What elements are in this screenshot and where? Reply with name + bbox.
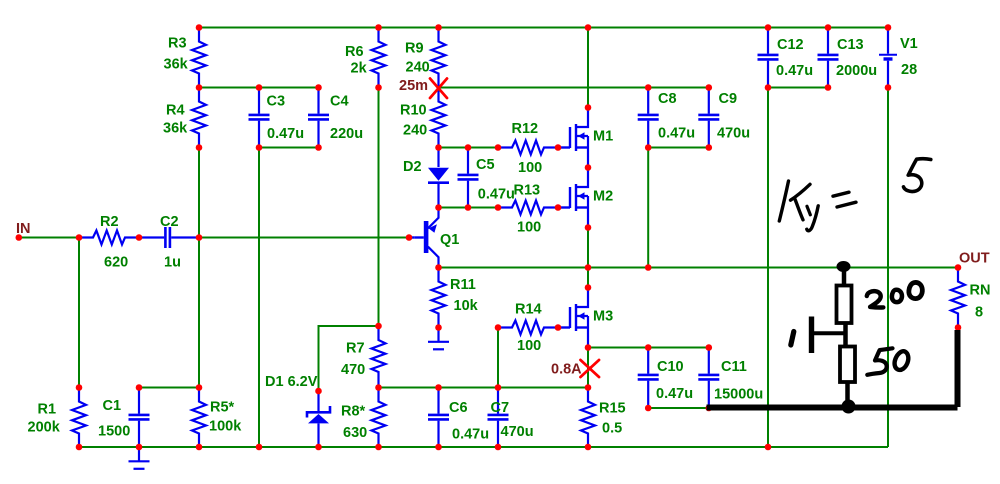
junction M2 source xyxy=(585,224,592,231)
svg-text:470u: 470u xyxy=(501,424,534,440)
svg-text:200k: 200k xyxy=(28,420,61,436)
resistor R1 200k xyxy=(72,388,86,448)
svg-text:C3: C3 xyxy=(267,94,286,110)
junction C3 bottom xyxy=(256,144,263,151)
hand-drawn wire stub to resistor 200 xyxy=(842,269,847,284)
junction R1 top xyxy=(76,384,83,391)
wire R6 bottom down to R7 top xyxy=(378,88,380,327)
wire M3 source rail to C10/C11 tops xyxy=(588,347,709,349)
svg-text:630: 630 xyxy=(343,425,367,441)
wire rail y=387.5 R7/R8 node to R15 top xyxy=(379,387,589,389)
junction M2 source at rail xyxy=(585,264,592,271)
junction C4 top xyxy=(315,84,322,91)
junction R7 top xyxy=(375,323,382,330)
svg-text:36k: 36k xyxy=(164,57,189,73)
svg-text:C10: C10 xyxy=(657,359,684,375)
junction R2 right xyxy=(136,234,143,241)
hand-drawn ground branch wire xyxy=(813,331,845,335)
svg-text:OUT: OUT xyxy=(959,251,990,267)
capacitor C9 470u xyxy=(698,88,719,148)
hand-drawn resistor 50 body xyxy=(840,347,855,383)
junction C11 top xyxy=(706,344,713,351)
junction C13 bottom xyxy=(825,84,832,91)
svg-text:R10: R10 xyxy=(400,103,427,119)
resistor R10 240 xyxy=(432,88,446,148)
wire output rail to M3 drain xyxy=(587,268,589,288)
capacitor C12 0.47u xyxy=(758,28,779,88)
svg-text:100k: 100k xyxy=(209,419,242,435)
junction R13 right M2 gate xyxy=(555,204,562,211)
svg-text:C11: C11 xyxy=(721,359,747,375)
resistor R14 100 xyxy=(498,321,558,335)
resistor R6 2k xyxy=(372,28,386,88)
svg-text:C6: C6 xyxy=(449,400,468,416)
junction C13 top xyxy=(825,24,832,31)
junction R15 bottom xyxy=(585,444,592,451)
svg-text:240: 240 xyxy=(406,60,430,76)
junction C12 top xyxy=(765,24,772,31)
svg-text:0.47u: 0.47u xyxy=(478,187,515,203)
capacitor C2 1u xyxy=(139,227,199,248)
junction M1 drain xyxy=(585,104,592,111)
junction C8 bottom xyxy=(645,144,652,151)
wire rail y=387.5 C1 top to R5 top xyxy=(139,387,199,389)
svg-text:100: 100 xyxy=(517,220,541,236)
svg-text:8: 8 xyxy=(975,305,983,321)
junction M1 drain rail xyxy=(585,24,592,31)
hand-drawn thick wire up to RN xyxy=(955,330,961,407)
svg-text:470: 470 xyxy=(341,362,365,378)
svg-text:R3: R3 xyxy=(168,36,187,52)
resistor R3 36k xyxy=(192,28,206,88)
svg-text:0.47u: 0.47u xyxy=(656,386,693,402)
svg-text:15000u: 15000u xyxy=(714,387,763,403)
svg-text:0.47u: 0.47u xyxy=(776,63,813,79)
svg-text:M1: M1 xyxy=(593,129,613,145)
junction V1 top xyxy=(885,24,892,31)
junction R5 top xyxy=(196,384,203,391)
hand-drawn resistor 200 body xyxy=(837,286,852,324)
capacitor C7 470u xyxy=(488,388,509,448)
wire IN to R2 xyxy=(19,237,79,239)
junction C1 bottom gnd xyxy=(136,444,143,451)
junction C1 top xyxy=(136,384,143,391)
junction C3 line gnd xyxy=(256,444,263,451)
capacitor C6 0.47u xyxy=(428,388,449,448)
svg-text:25m: 25m xyxy=(399,78,428,94)
svg-text:0.8A: 0.8A xyxy=(551,362,582,378)
junction R8 bottom xyxy=(375,444,382,451)
svg-text:240: 240 xyxy=(403,123,427,139)
junction R6 bottom xyxy=(375,84,382,91)
svg-text:R12: R12 xyxy=(512,121,539,137)
capacitor C10 0.47u xyxy=(638,348,659,408)
svg-text:D1 6.2V: D1 6.2V xyxy=(265,374,318,390)
svg-text:C8: C8 xyxy=(658,91,677,107)
junction C12 line gnd xyxy=(765,444,772,451)
junction R7/R8 node xyxy=(375,384,382,391)
resistor R7 470 xyxy=(372,326,386,386)
svg-text:V1: V1 xyxy=(900,36,918,52)
svg-text:C7: C7 xyxy=(491,400,510,416)
hand-drawn thick ground return wire xyxy=(707,405,958,411)
svg-text:1u: 1u xyxy=(164,255,181,271)
junction R12 right M1 gate xyxy=(555,144,562,151)
junction R1 bottom xyxy=(76,444,83,451)
junction C8 top xyxy=(645,84,652,91)
junction C6 bottom xyxy=(435,444,442,451)
junction R11 bottom xyxy=(435,324,442,331)
junction C2 right xyxy=(196,234,203,241)
svg-text:100: 100 xyxy=(518,160,542,176)
junction R2 left xyxy=(76,234,83,241)
svg-text:M2: M2 xyxy=(593,189,613,205)
svg-text:0.5: 0.5 xyxy=(602,421,622,437)
capacitor C13 2000u xyxy=(818,28,839,88)
junction D2 bottom xyxy=(435,204,442,211)
svg-text:C1: C1 xyxy=(103,398,122,414)
junction Q1 base xyxy=(406,234,413,241)
junction C8 line at rail xyxy=(645,264,652,271)
wire D1 top to R7 top node xyxy=(319,326,379,391)
resistor R12 100 xyxy=(498,141,558,155)
wire rail y=147.5 C3/C4 bottoms xyxy=(259,147,319,149)
junction C10 bottom xyxy=(645,405,652,412)
capacitor C1 1500 xyxy=(129,388,150,448)
junction M3 source xyxy=(585,344,592,351)
resistor R11 10k xyxy=(432,268,446,328)
diode D2 xyxy=(428,148,449,208)
junction R3 top xyxy=(196,24,203,31)
hand-drawn ground tick xyxy=(791,332,794,346)
capacitor C11 15000u xyxy=(698,348,719,408)
junction R15 top xyxy=(585,384,592,391)
junction D1 top xyxy=(315,388,322,395)
svg-text:Q1: Q1 xyxy=(440,232,459,248)
capacitor C3 0.47u xyxy=(249,88,270,148)
junction C11 bottom xyxy=(706,405,713,412)
junction Q1 emitter node xyxy=(435,264,442,271)
wire C2 to Q1 base xyxy=(199,237,409,239)
svg-text:220u: 220u xyxy=(330,126,363,142)
svg-text:D2: D2 xyxy=(403,159,422,175)
capacitor C5 0.47u xyxy=(458,148,479,208)
ammeter X 0.8A below M3 source xyxy=(581,360,600,377)
svg-text:R6: R6 xyxy=(345,44,364,60)
handwritten 200 value xyxy=(867,291,884,307)
junction R10 bottom xyxy=(435,144,442,151)
wire C8 bottom down to output rail xyxy=(647,148,649,268)
junction R5 bottom xyxy=(196,444,203,451)
junction C7 top xyxy=(495,384,502,391)
resistor R9 240 xyxy=(432,28,446,88)
capacitor C4 220u xyxy=(308,88,329,148)
handwritten y subscript xyxy=(807,206,810,215)
wire rail y=87.5 from 25m node to C8/C9 xyxy=(439,87,709,89)
junction C5 bottom xyxy=(465,204,472,211)
wire rail y=87.5 C12/C13 bottoms xyxy=(768,87,828,89)
hand-drawn node blob on output rail xyxy=(837,261,851,272)
junction R14 left xyxy=(495,324,502,331)
junction C10 top xyxy=(645,344,652,351)
wire V+ to M1 drain xyxy=(587,28,589,108)
svg-text:R13: R13 xyxy=(514,183,541,199)
transistor Q1 PNP xyxy=(409,208,439,268)
svg-text:R7: R7 xyxy=(346,341,365,357)
svg-text:C5: C5 xyxy=(476,157,495,173)
junction C4 bottom xyxy=(315,144,322,151)
svg-text:R4: R4 xyxy=(166,103,185,119)
handwritten equals sign xyxy=(833,192,849,196)
resistor R2 620 xyxy=(79,231,139,245)
resistor R8* 630 xyxy=(372,388,386,448)
wire rail y=147.5 R10 bottom to R12 xyxy=(439,147,499,149)
mosfet M3 xyxy=(558,288,588,348)
svg-text:C12: C12 xyxy=(777,37,804,53)
wire ground rail bottom xyxy=(79,446,888,448)
junction C6 top xyxy=(435,384,442,391)
junction C9 top xyxy=(706,84,713,91)
resistor R5* 100k xyxy=(192,388,206,448)
wire C12 bottom down to ground rail xyxy=(767,88,769,448)
wire top V+ rail xyxy=(199,27,888,29)
svg-text:C2: C2 xyxy=(160,214,179,230)
svg-text:28: 28 xyxy=(901,62,917,78)
hand-drawn wire between resistors xyxy=(843,324,848,345)
ground below R11 xyxy=(428,328,449,350)
zener diode D1 6.2V xyxy=(307,391,330,447)
junction R9 top xyxy=(435,24,442,31)
wire IN node down to R1 top xyxy=(78,238,80,388)
svg-text:0.47u: 0.47u xyxy=(267,126,304,142)
resistor R15 0.5 xyxy=(581,388,595,448)
wire rail y=207.5 D2 bottom to R13 xyxy=(439,207,499,209)
ammeter X 25m at R9/R10 node xyxy=(430,79,447,99)
handwritten 50 value xyxy=(867,348,892,375)
svg-text:0.47u: 0.47u xyxy=(452,427,489,443)
junction R13 left xyxy=(495,204,502,211)
mosfet M2 xyxy=(558,168,588,228)
junction D1 bottom xyxy=(315,444,322,451)
svg-text:R14: R14 xyxy=(515,302,542,318)
svg-text:C13: C13 xyxy=(837,37,864,53)
svg-text:IN: IN xyxy=(16,221,31,237)
junction C7 bottom xyxy=(495,444,502,451)
ground below C1 xyxy=(129,447,150,469)
svg-text:R2: R2 xyxy=(100,214,119,230)
wire R4 bottom down to R5 top xyxy=(198,148,200,388)
junction IN terminal xyxy=(15,234,22,241)
junction C5 top xyxy=(465,144,472,151)
hand-drawn ground bar xyxy=(809,317,814,354)
junction C12 bottom xyxy=(765,84,772,91)
svg-text:R5*: R5* xyxy=(210,400,235,416)
svg-text:1500: 1500 xyxy=(98,424,130,440)
junction C9 bottom xyxy=(706,144,713,151)
capacitor C8 0.47u xyxy=(638,88,659,148)
wire rail y=408 C10/C11 bottoms xyxy=(648,407,709,409)
svg-text:RN: RN xyxy=(970,283,991,299)
svg-text:0.47u: 0.47u xyxy=(658,126,695,142)
svg-text:620: 620 xyxy=(104,255,128,271)
wire rail y=147.5 C8/C9 bottoms xyxy=(648,147,709,149)
svg-text:36k: 36k xyxy=(163,121,188,137)
svg-text:2000u: 2000u xyxy=(836,63,877,79)
hand-drawn wire below resistor 50 xyxy=(845,382,850,403)
wire M3 source through 0.8A to R15 top xyxy=(587,348,589,388)
hand-drawn junction blob lower xyxy=(842,400,856,414)
svg-text:R1: R1 xyxy=(38,402,57,418)
svg-text:470u: 470u xyxy=(717,126,750,142)
junction M3 drain xyxy=(585,284,592,291)
handwritten K xyxy=(779,181,788,221)
svg-text:R9: R9 xyxy=(405,41,424,57)
svg-text:R11: R11 xyxy=(450,277,476,293)
wire M2 source to output rail xyxy=(587,228,589,268)
resistor R4 36k xyxy=(192,88,206,148)
voltage source V1 28 xyxy=(879,28,897,88)
junction OUT terminal xyxy=(955,264,962,271)
junction C3 top xyxy=(256,84,263,91)
resistor RN 8 xyxy=(951,268,965,328)
svg-text:C9: C9 xyxy=(719,91,738,107)
wire V1 minus down right side xyxy=(887,88,889,448)
junction V1 bottom xyxy=(885,84,892,91)
wire rail y=87.5 C3/C4 tops xyxy=(199,87,319,89)
svg-text:R8*: R8* xyxy=(341,404,366,420)
wire output rail y=267.5 xyxy=(439,267,959,269)
junction R6 top xyxy=(375,24,382,31)
svg-text:C4: C4 xyxy=(330,94,349,110)
svg-text:M3: M3 xyxy=(593,309,613,325)
junction R3/R4 xyxy=(196,84,203,91)
junction RN bottom xyxy=(955,324,962,331)
junction R4 bottom xyxy=(196,144,203,151)
handwritten 5 gain value xyxy=(904,159,931,192)
junction M1 source M2 drain xyxy=(585,164,592,171)
wire C3 bottom down to ground rail xyxy=(258,148,260,448)
svg-text:2k: 2k xyxy=(351,61,368,77)
svg-text:R15: R15 xyxy=(599,401,626,417)
junction R12 left xyxy=(495,144,502,151)
mosfet M1 xyxy=(558,108,588,168)
resistor R13 100 xyxy=(498,201,558,215)
wire R14 left node down to C7 top xyxy=(497,328,499,388)
junction R14 right M3 gate xyxy=(555,324,562,331)
svg-text:100: 100 xyxy=(517,338,541,354)
svg-text:10k: 10k xyxy=(454,298,479,314)
